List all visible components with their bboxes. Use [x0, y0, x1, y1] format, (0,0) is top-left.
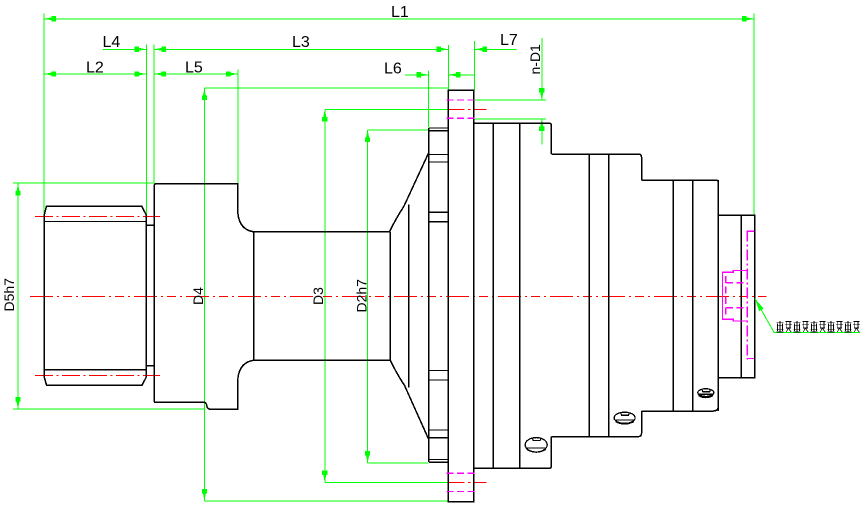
- extension line left end of shaft x=44: [43, 14, 45, 216]
- svg-text:D2h7: D2h7: [354, 279, 370, 313]
- mid shaft with fillets: [238, 214, 390, 379]
- second cylinder (shaft boss): [154, 184, 238, 409]
- label L5: [185, 59, 203, 76]
- dimension L1 overall length: [44, 16, 754, 21]
- housing block 2: [551, 154, 641, 436]
- bolt hub column: [429, 128, 449, 462]
- svg-text:D4: D4: [190, 287, 206, 305]
- housing block 1: [474, 123, 551, 468]
- label L1: [391, 4, 409, 21]
- shaft neck: [146, 225, 154, 365]
- bolt head on block3: [698, 389, 714, 398]
- label L6: [384, 60, 402, 77]
- flange bolt hole bottom (hidden): [447, 473, 475, 491]
- label L3: [292, 34, 310, 51]
- extension line hub left x=428: [427, 71, 429, 128]
- input spline shaft outline: [44, 206, 146, 385]
- extension line shaft right end x=146: [145, 45, 147, 216]
- svg-text:D3: D3: [310, 287, 326, 305]
- label D4 rotated: [190, 287, 206, 305]
- svg-text:D5h7: D5h7: [1, 278, 17, 312]
- extension line flange left x=448: [447, 45, 449, 90]
- svg-text:L6: L6: [384, 60, 402, 77]
- label D5h7 rotated: [1, 278, 17, 312]
- label n-D1 rotated: [527, 44, 543, 75]
- extension line flange right x=474: [473, 41, 475, 90]
- leader arrow to output: [755, 299, 860, 333]
- svg-text:L1: L1: [391, 4, 409, 21]
- output bore hidden edges top: [747, 230, 755, 232]
- dimension L6 hub width outside arrows: [405, 72, 474, 77]
- bolt hole centerline bottom: [448, 482, 486, 484]
- output bore hidden edges bottom: [747, 358, 755, 360]
- label L2: [86, 59, 104, 76]
- bolt head on block1: [525, 438, 547, 453]
- label D2h7 rotated: [354, 279, 370, 313]
- note text: input dimensions per customer requirement: [777, 321, 860, 332]
- extension line cylinder right x=238: [237, 70, 239, 184]
- dimension L5 cylinder width: [154, 71, 238, 76]
- svg-text:n-D1: n-D1: [527, 44, 543, 75]
- dimension D5h7 input shaft boss diameter: [13, 183, 204, 409]
- svg-text:L2: L2: [86, 59, 104, 76]
- output coupling profile: [723, 271, 748, 322]
- svg-text:L4: L4: [103, 34, 121, 51]
- bolt hole centerline top: [448, 108, 486, 110]
- main centerline: [30, 295, 767, 297]
- label L4: [103, 34, 121, 51]
- housing block 4 output: [718, 215, 754, 377]
- extension line cylinder left x=154: [153, 45, 155, 184]
- dimension n-D1 bolt hole: [475, 38, 546, 144]
- svg-text:L5: L5: [185, 59, 203, 76]
- dimension L2: [44, 71, 146, 76]
- svg-text:L3: L3: [292, 34, 310, 51]
- bell cone: [389, 152, 429, 440]
- spline pitch line top: [35, 215, 160, 217]
- flange bolt hole top (hidden): [447, 100, 475, 118]
- dimension D3 bolt circle diameter: [322, 109, 448, 482]
- extension line right end x=754: [753, 14, 755, 216]
- label L7: [500, 32, 518, 49]
- svg-text:L7: L7: [500, 32, 518, 49]
- dimension D2h7 pilot hub diameter: [365, 130, 428, 463]
- bolt head on block2: [614, 412, 635, 424]
- label D3 rotated: [310, 287, 326, 305]
- output bore axis dash-dot: [746, 231, 748, 360]
- housing block 3: [642, 180, 719, 411]
- dimension L3: [154, 47, 448, 52]
- spline pitch line bottom: [35, 375, 160, 377]
- dimension D4 flange diameter: [202, 88, 449, 501]
- dimension L4: [103, 47, 147, 52]
- dimension L7 flange thickness: [475, 47, 517, 52]
- mounting flange: [448, 90, 474, 501]
